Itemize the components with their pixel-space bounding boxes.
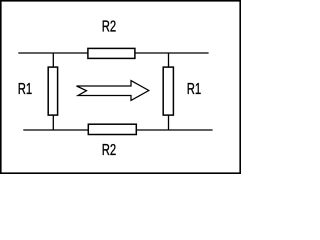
svg-text:R1: R1 bbox=[187, 81, 201, 98]
svg-text:R2: R2 bbox=[102, 141, 116, 158]
svg-text:R2: R2 bbox=[102, 18, 116, 35]
svg-text:R1: R1 bbox=[18, 81, 32, 98]
